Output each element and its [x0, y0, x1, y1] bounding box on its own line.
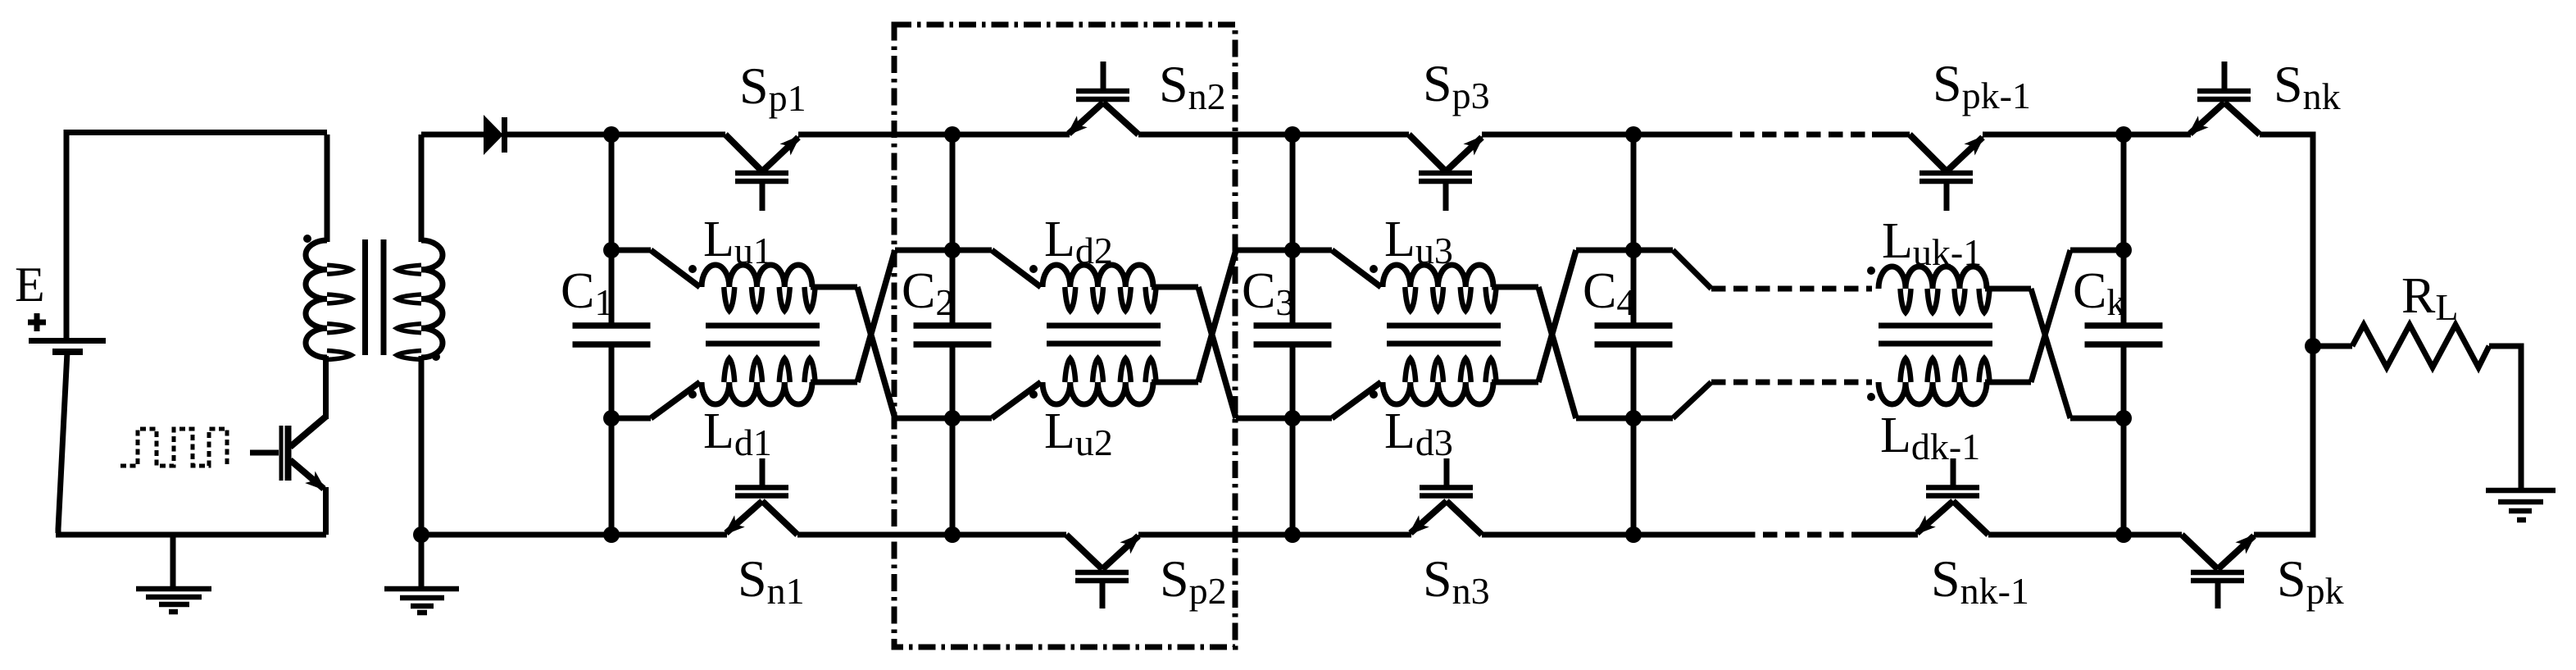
battery E short plate [52, 349, 83, 355]
node column C3 vertical wire (lower) [1290, 347, 1296, 535]
polarity dot for Ldk-1 [1867, 393, 1875, 401]
junction dot lower tap / C3 [1284, 410, 1301, 426]
wire crossing diagonal lower-to-upper [1538, 250, 1576, 382]
junction dot lower tap / C4 [1625, 410, 1642, 426]
wire to next lower tap [895, 416, 952, 422]
wire lower entry diagonal (cell k-1) [1673, 382, 1711, 418]
junction dot bottom rail / Ck [2115, 526, 2132, 543]
pulse waveform (gate drive, dotted) [120, 429, 227, 466]
wire crossing diagonal upper-to-lower [1538, 287, 1576, 418]
polarity dot secondary [432, 353, 440, 361]
wire upper coil exit horizontal (cell k-1) [1985, 286, 2031, 292]
node column C2 vertical wire (upper) [950, 134, 956, 325]
switch Spk (IGBT on bottom rail, V below rail, arrow up-right) [2182, 535, 2254, 608]
wire lower entry diagonal [992, 382, 1041, 418]
wire bottom rail dashed (continuation dots) [1741, 532, 1859, 538]
wire upper entry diagonal [992, 250, 1041, 287]
switch Sp2 (IGBT on bottom rail, V below rail, arrow up-right) [1066, 535, 1138, 608]
wire lower dashed continuation [1711, 380, 1872, 385]
wire lower tap horizontal from C node x=1577 [1293, 416, 1332, 422]
diode D1 (anode triangle) [484, 115, 503, 155]
wire right vertical (output node) [2310, 132, 2316, 538]
polarity dot for Lu3 [1370, 265, 1378, 273]
wire bottom rail Snk-1 to Spk [1988, 532, 2182, 538]
junction dot top rail / C4 [1625, 126, 1642, 143]
wire lower coil exit horizontal [1492, 380, 1538, 385]
ground stub below secondary [419, 535, 425, 587]
node column C2 vertical wire (lower) [950, 347, 956, 535]
wire output to resistor [2313, 344, 2352, 349]
magnetic core bars of coupled inductor [1047, 323, 1161, 329]
wire lower tap horizontal from C4 [1633, 416, 1673, 422]
polarity dot primary [303, 235, 311, 243]
junction dot top rail / C3 [1284, 126, 1301, 143]
wire upper entry diagonal [651, 250, 700, 287]
transformer secondary winding [397, 134, 443, 535]
wire top rail Sn2 to Sp3 [1138, 132, 1409, 138]
capacitor C4 top plate [1595, 322, 1673, 329]
junction dot bottom rail / C4 [1625, 526, 1642, 543]
switch Sp3 (IGBT on top rail, V below rail, arrow up-right) [1409, 134, 1482, 211]
plus sign of source E [28, 320, 46, 326]
wire upper entry diagonal (cell k-1) [1673, 250, 1711, 289]
polarity dot for Ld2 [1029, 265, 1038, 273]
switch Sn3 (IGBT on bottom rail, inverted-V above rail, arrow down-left) [1411, 458, 1482, 535]
wire E loop bottom horizontal [56, 532, 326, 538]
junction dot bottom rail / C3 [1284, 526, 1301, 543]
ground symbol (secondary) [384, 589, 459, 613]
junction dot upper tap / C3 [1284, 242, 1301, 258]
inductor Luk-1 upper coil [1879, 267, 1990, 312]
capacitor Ck top plate [2085, 322, 2163, 329]
polarity dot for Lu1 [688, 265, 697, 273]
wire upper entry diagonal [1332, 250, 1381, 287]
capacitor Ck bottom plate [2085, 341, 2163, 348]
wire bottom rail Sn1 to Sp2 [797, 532, 1066, 538]
wire bottom rail dashes to Snk-1 [1856, 532, 1918, 538]
wire upper coil exit horizontal [1152, 285, 1198, 290]
junction dot lower tap / Ck [2115, 410, 2132, 426]
wire bottom rail Spk to right corner [2254, 532, 2313, 538]
wire below battery (slanted) [58, 352, 67, 533]
node column C4 vertical wire (upper) [1631, 134, 1637, 325]
wire upper tap horizontal from C node x=1162 [952, 248, 992, 253]
diode D1 cathode bar [502, 117, 507, 153]
wire lower entry diagonal [651, 382, 700, 418]
switch Sn1 (IGBT on bottom rail, inverted-V above rail, arrow down-left) [726, 458, 797, 535]
wire lower tap horizontal from C node x=1162 [952, 416, 992, 422]
node column C3 vertical wire (upper) [1290, 134, 1296, 325]
wire E loop top horizontal [64, 130, 328, 135]
inductor Lu2 lower coil [1043, 358, 1156, 404]
magnetic core bars of coupled inductor [706, 323, 820, 329]
ground symbol (load) [2486, 490, 2556, 520]
transistor Q1 body bar [285, 426, 292, 481]
wire top rail diode to Sp1 [504, 132, 725, 138]
wire to next upper tap [1576, 248, 1633, 253]
dash-dot highlight box around cell 2 [894, 25, 1235, 647]
inductor Ld1 lower coil [702, 358, 816, 404]
wire to Ck upper tap [2070, 248, 2124, 253]
node column C1 vertical wire (upper) [609, 134, 615, 325]
transistor Q1 collector diagonal [290, 417, 326, 447]
transformer primary winding [306, 134, 352, 360]
polarity dot for Ld3 [1370, 390, 1378, 399]
battery E long plate [29, 338, 106, 344]
wire lower coil exit horizontal [811, 380, 857, 385]
resistor RL zigzag [2352, 325, 2489, 367]
wire top rail Sp1 to Sn2 [798, 132, 1070, 138]
wire to next upper tap [895, 248, 952, 253]
wire upper tap horizontal from C4 [1633, 248, 1673, 253]
junction dot top rail / C1 [603, 126, 620, 143]
wire top rail Sp3 to dashes [1482, 132, 1718, 138]
ground stub below E loop [170, 535, 176, 587]
inductor Ld3 lower coil [1383, 358, 1497, 404]
junction dot upper tap / Ck [2115, 242, 2132, 258]
inductor Lu1 upper coil [702, 265, 816, 311]
inductor Ldk-1 lower coil [1879, 358, 1990, 404]
junction dot upper tap / C4 [1625, 242, 1642, 258]
wire E loop left vertical [64, 132, 70, 339]
capacitor C3 bottom plate [1254, 341, 1332, 348]
capacitor C1 top plate [573, 322, 651, 329]
wire top rail dashes to Spk-1 [1872, 132, 1910, 138]
wire top rail secondary to diode [421, 132, 484, 138]
magnetic core bars of coupled inductor (cell k-1) [1879, 323, 1992, 329]
wire crossing diagonal lower-to-upper [1198, 250, 1236, 382]
wire crossing diagonal upper-to-lower [1198, 287, 1236, 418]
switch Snk-1 (IGBT on bottom rail, inverted-V above rail, arrow down-left) [1917, 458, 1988, 535]
svg-text:E: E [15, 258, 45, 312]
junction dot output node [2305, 338, 2321, 354]
polarity dot for Ld1 [688, 390, 697, 399]
wire bottom rail Sp2 to Sn3 [1138, 532, 1411, 538]
capacitor C4 bottom plate [1595, 341, 1673, 348]
capacitor C2 bottom plate [914, 341, 992, 348]
magnetic core bars of coupled inductor [1387, 323, 1501, 329]
wire crossing diagonal lower-to-upper (cell k-1) [2031, 250, 2070, 382]
junction dot secondary-to-bottom-rail [413, 526, 429, 543]
wire top rail Spk-1 to Snk [1983, 132, 2191, 138]
wire upper dashed continuation [1711, 286, 1872, 292]
wire crossing diagonal upper-to-lower (cell k-1) [2031, 289, 2070, 418]
wire lower entry diagonal [1332, 382, 1381, 418]
junction dot bottom rail / C2 [944, 526, 961, 543]
junction dot top rail / C2 [944, 126, 961, 143]
wire crossing diagonal upper-to-lower [857, 287, 895, 418]
capacitor C3 top plate [1254, 322, 1332, 329]
ground symbol (E loop) [136, 589, 211, 612]
wire to next upper tap [1236, 248, 1293, 253]
wire crossing diagonal lower-to-upper [857, 250, 895, 382]
switch Sn2 (IGBT on top rail, inverted-V above rail, arrow down-left) [1069, 62, 1138, 134]
junction dot top rail / Ck [2115, 126, 2132, 143]
wire bottom rail Sn3 to dashes [1482, 532, 1741, 538]
wire lower tap horizontal from C node x=746 [611, 416, 651, 422]
wire top rail Snk to right corner [2260, 132, 2313, 138]
node column C1 vertical wire (lower) [609, 347, 615, 535]
wire lower coil exit horizontal (cell k-1) [1985, 380, 2031, 385]
transistor Q1 gate lead [250, 450, 279, 456]
wire top rail dashed (continuation dots) [1718, 132, 1875, 138]
node column Ck vertical wire (upper) [2121, 134, 2127, 325]
junction dot lower tap / C1 [603, 410, 620, 426]
junction dot lower tap / C2 [944, 410, 961, 426]
switch Sp1 (IGBT on top rail, V below rail, arrow up-right) [725, 134, 798, 211]
switch Snk (IGBT on top rail, inverted-V above rail, arrow down-left) [2190, 62, 2260, 134]
transistor Q1 gate bar (thin) [279, 426, 284, 481]
inductor Ld2 upper coil [1043, 265, 1156, 311]
wire Q1 collector vertical [323, 356, 329, 419]
wire resistor to ground corner [2489, 346, 2521, 489]
wire lower coil exit horizontal [1152, 380, 1198, 385]
wire to next lower tap [1576, 416, 1633, 422]
wire bottom rail secondary to Sn1 [421, 532, 727, 538]
inductor Lu3 upper coil [1383, 265, 1497, 311]
capacitor C1 bottom plate [573, 341, 651, 348]
wire upper coil exit horizontal [811, 285, 857, 290]
junction dot bottom rail / C1 [603, 526, 620, 543]
wire Q1 emitter vertical [323, 487, 329, 535]
transformer core bars [366, 239, 384, 355]
junction dot upper tap / C1 [603, 242, 620, 258]
wire upper tap horizontal from C node x=1577 [1293, 248, 1332, 253]
junction dot upper tap / C2 [944, 242, 961, 258]
switch Spk-1 (IGBT on top rail, V below rail, arrow up-right) [1910, 134, 1983, 211]
wire upper tap horizontal from C node x=746 [611, 248, 651, 253]
wire to next lower tap [1236, 416, 1293, 422]
capacitor C2 top plate [914, 322, 992, 329]
node column C4 vertical wire (lower) [1631, 347, 1637, 535]
polarity dot for Lu2 [1029, 390, 1038, 399]
node column Ck vertical wire (lower) [2121, 347, 2127, 535]
polarity dot for Luk-1 [1867, 267, 1875, 275]
wire to Ck lower tap [2070, 416, 2124, 422]
wire upper coil exit horizontal [1492, 285, 1538, 290]
transistor Q1 emitter diagonal with arrow [290, 460, 324, 489]
